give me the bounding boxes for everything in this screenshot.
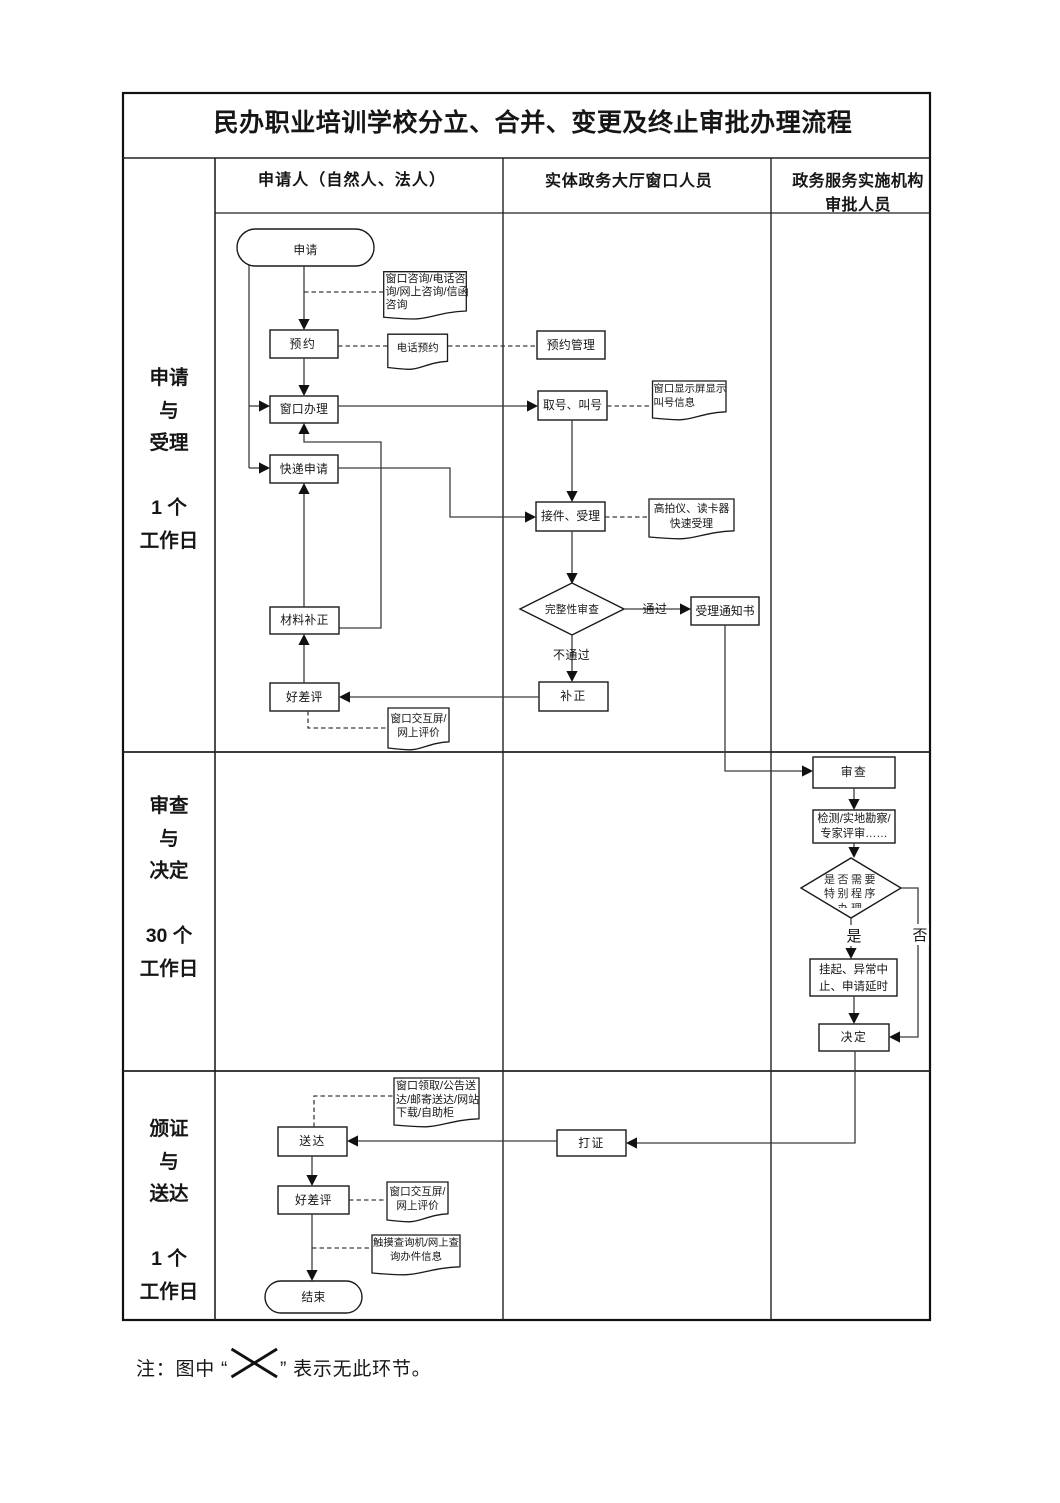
wire 决定 to 打证	[637, 1051, 855, 1143]
text of document 窗口显示屏显示叫号信息	[654, 383, 727, 412]
wire 审查 to 检测	[853, 788, 855, 800]
label of diamond 是否需要特别程序	[809, 873, 893, 908]
footnote text right part	[280, 1360, 431, 1381]
document 窗口交互屏/网上评价 2	[387, 1182, 448, 1222]
wire 好差评 2 to 结束	[311, 1214, 313, 1271]
label of box 挂起异常中止申请延时	[810, 962, 897, 995]
process box 好差评	[270, 683, 339, 711]
start terminator 申请	[237, 229, 374, 266]
text of consult document	[386, 273, 469, 313]
wire 完整性审查 通过 to 受理通知书	[624, 608, 681, 610]
document 触摸查询机/网上查询办件信息	[372, 1235, 460, 1275]
decision diamond 是否需要特别程序办理	[801, 858, 901, 918]
section divider 2	[123, 1070, 930, 1072]
wire label 通过	[643, 603, 668, 617]
label of box 接件、受理	[536, 510, 605, 524]
wire 材料补正 loop to 窗口办理	[304, 433, 381, 628]
wire 受理通知书 to 审查	[725, 625, 802, 771]
document 窗口交互屏/网上评价	[388, 708, 449, 750]
wire diamond 否 to 决定	[900, 888, 918, 1037]
process box 补正	[539, 682, 608, 711]
wire 取号 to 接件、受理	[571, 420, 573, 492]
wire 打证 to 送达	[358, 1140, 557, 1142]
label of box 预约	[269, 338, 337, 352]
wire 好差评 to 材料补正	[303, 644, 305, 683]
phase label 审查与决定 30个工作日	[123, 790, 215, 985]
label of box 预约管理	[537, 339, 605, 353]
label of box 好差评	[270, 691, 339, 705]
header 申请人（自然人、法人）	[258, 172, 446, 190]
wire 补正 to 好差评	[350, 696, 539, 698]
process box 检测/实地勘察/专家评审	[813, 810, 895, 843]
dashed wire to query document	[312, 1247, 372, 1249]
label of box 打证	[557, 1137, 626, 1151]
label of terminator 结束	[265, 1291, 362, 1305]
diagram title	[130, 110, 936, 137]
dashed wire 取号 to display document	[607, 405, 652, 407]
wire 窗口办理 to 取号、叫号	[338, 405, 528, 407]
wire 快递申请 to 接件、受理	[338, 468, 526, 517]
process box 接件、受理	[536, 502, 605, 531]
end terminator 结束	[265, 1281, 362, 1313]
wire 材料补正 to 快递申请	[303, 493, 305, 607]
column separator 1-2	[502, 158, 504, 1320]
dashed wire 好差评 2 to evaluation document 2	[349, 1199, 387, 1201]
text of delivery document	[396, 1080, 479, 1121]
wire 预约 to 窗口办理	[303, 358, 305, 386]
document 窗口咨询/电话咨询/网上咨询/信函咨询	[384, 272, 467, 319]
wire label 否	[912, 924, 929, 945]
label of box 受理通知书	[691, 605, 759, 619]
process box 打证	[557, 1130, 626, 1156]
outer frame border	[123, 93, 930, 1320]
process box 挂起、异常中止、申请延时	[810, 959, 897, 996]
document 电话预约	[388, 334, 448, 369]
process box 受理通知书	[691, 597, 759, 625]
note X cross symbol	[232, 1349, 278, 1377]
process box 决定	[819, 1024, 889, 1051]
process box 预约管理	[537, 331, 605, 359]
process box 材料补正	[270, 607, 339, 634]
document 高拍仪、读卡器快速受理	[649, 499, 734, 539]
wire label 不通过	[553, 649, 590, 663]
phase label 颁证与送达 1个工作日	[123, 1113, 215, 1308]
text of document 高拍仪读卡器快速受理	[649, 502, 734, 532]
wire label 是	[846, 925, 863, 946]
label of box 审查	[813, 766, 895, 780]
label of terminator 申请	[237, 244, 374, 258]
process box 快递申请	[270, 455, 338, 483]
wire 完整性审查 不通过 to 补正	[571, 635, 573, 672]
process box 预约	[270, 330, 338, 358]
label of box 材料补正	[270, 614, 339, 628]
label of box 补正	[539, 690, 608, 704]
text of query document	[372, 1237, 460, 1266]
dashed wire 接件 to scanner document	[605, 516, 649, 518]
process box 审查	[813, 757, 895, 788]
wire left branch from 申请 to 窗口办理 and 快递申请	[248, 264, 250, 468]
text of evaluation document 2	[387, 1185, 448, 1214]
dashed wire 好差评 to evaluation document	[308, 711, 388, 728]
wire 检测 to diamond	[853, 843, 855, 848]
document 窗口领取/公告送达/邮寄送达/网站下载/自助柜	[394, 1078, 479, 1127]
label of box 送达	[278, 1135, 347, 1149]
header 政务服务实施机构审批人员	[778, 170, 938, 217]
dashed wire 送达 to delivery document	[314, 1096, 394, 1127]
label of diamond 完整性审查	[520, 604, 624, 616]
label of box 检测实地勘察专家评审	[813, 812, 895, 842]
text of document 电话预约	[388, 342, 448, 354]
text of document 窗口交互屏网上评价	[388, 712, 449, 741]
wire 接件 to 完整性审查	[571, 531, 573, 574]
wire 送达 to 好差评 2	[311, 1156, 313, 1176]
title row divider line	[123, 157, 930, 159]
document 窗口显示屏显示叫号信息	[653, 381, 727, 420]
label of box 快递申请	[270, 463, 338, 477]
label of box 好差评 2	[278, 1194, 349, 1208]
process box 好差评 2	[278, 1186, 349, 1214]
label of box 窗口办理	[270, 403, 338, 417]
process box 取号、叫号	[538, 391, 607, 420]
section divider 1	[123, 751, 930, 753]
label of box 决定	[819, 1031, 889, 1045]
column separator 2-3	[770, 158, 772, 1320]
dashed wire to consult document	[304, 291, 383, 293]
dashed wire 电话预约 to 预约管理	[448, 345, 537, 347]
decision diamond 完整性审查	[520, 583, 624, 635]
footnote text left part	[136, 1360, 228, 1381]
process box 送达	[278, 1127, 347, 1156]
wire diamond 是 to 挂起	[850, 918, 852, 949]
phase column separator	[214, 158, 216, 1320]
wire 申请 to 预约	[303, 266, 305, 320]
wire 挂起 to 决定	[853, 996, 855, 1014]
header row divider line	[215, 212, 930, 214]
process box 窗口办理	[270, 396, 338, 423]
phase label 申请与受理 1个工作日	[123, 362, 215, 557]
header 实体政务大厅窗口人员	[545, 173, 713, 191]
label of box 取号、叫号	[538, 399, 607, 413]
dashed wire 预约 to 电话预约	[338, 345, 388, 347]
